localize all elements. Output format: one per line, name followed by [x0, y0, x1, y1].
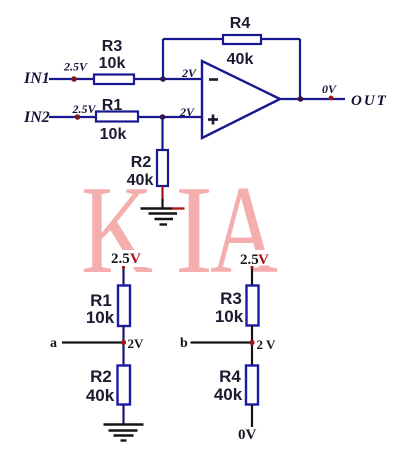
svg-text:0V: 0V: [238, 427, 257, 443]
junction dot plus node: [160, 114, 166, 120]
resistor R3 divider body: [247, 286, 259, 326]
op-amp minus sign: [209, 78, 218, 81]
svg-text:2V: 2V: [179, 105, 195, 119]
svg-text:R3: R3: [220, 289, 242, 308]
wire node a horizontal: [62, 341, 124, 343]
junction dot node a: [121, 340, 126, 345]
svg-text:2V: 2V: [181, 66, 197, 80]
wire R4 to 0V: [251, 405, 253, 428]
svg-text:10k: 10k: [99, 55, 126, 72]
svg-text:2.5V: 2.5V: [72, 102, 97, 116]
resistor R1 body: [96, 112, 138, 122]
wire R2 to ground bottom: [122, 405, 124, 425]
junction dot feedback node: [160, 76, 166, 82]
svg-text:V: V: [258, 252, 269, 268]
wire R1 to node a: [122, 326, 124, 366]
resistor R1 divider body: [118, 286, 130, 327]
wire R2 to ground black: [161, 199, 163, 208]
wire IN1 to R3: [49, 78, 94, 80]
junction dot IN1: [71, 76, 77, 82]
svg-text:40k: 40k: [86, 386, 115, 405]
wire plus node down to R2: [161, 117, 163, 150]
resistor R4 divider body: [246, 366, 258, 405]
svg-text:40k: 40k: [227, 51, 254, 68]
junction dot IN2: [75, 114, 81, 120]
resistor R2 body: [157, 150, 168, 186]
svg-text:R3: R3: [102, 38, 123, 55]
white label box right 2.5V: [234, 250, 271, 266]
watermark KIA: [81, 161, 278, 300]
svg-text:0V: 0V: [322, 82, 337, 96]
resistor R3 body: [94, 75, 134, 85]
wire 2.5V stub left: [122, 266, 124, 286]
wire feedback top left: [163, 38, 223, 40]
wire 2.5V stub right: [251, 266, 253, 286]
op-amp plus sign: [208, 115, 218, 125]
wire R1 to op-amp: [138, 116, 202, 118]
svg-text:2.5V: 2.5V: [63, 60, 88, 74]
svg-text:IN2: IN2: [23, 109, 50, 126]
svg-text:10k: 10k: [215, 307, 244, 326]
wire feedback vertical up: [162, 39, 164, 79]
svg-text:2.5: 2.5: [240, 252, 259, 268]
wire output: [280, 98, 345, 100]
wire node b horizontal: [191, 341, 253, 343]
svg-text:V: V: [130, 251, 141, 267]
wire R3 to op-amp: [134, 78, 202, 80]
svg-text:2.5: 2.5: [111, 251, 130, 267]
dot 0V probe: [329, 96, 334, 101]
junction dot node b: [249, 340, 254, 345]
resistor R4 body: [223, 35, 261, 44]
svg-text:a: a: [50, 336, 57, 351]
svg-text:40k: 40k: [214, 385, 243, 404]
label 2.5V right divider: [240, 252, 269, 268]
wire R2 to ground red: [161, 186, 163, 201]
label 2.5V left divider: [111, 251, 141, 267]
svg-text:10k: 10k: [100, 126, 127, 143]
resistor R2 divider body: [118, 366, 131, 405]
ground top symbol: [141, 209, 178, 225]
svg-text:R4: R4: [230, 15, 251, 32]
wire feedback vertical down: [299, 39, 301, 99]
dot stub right: [250, 266, 253, 269]
svg-text:R1: R1: [102, 97, 123, 114]
svg-text:IN1: IN1: [23, 70, 50, 87]
svg-text:b: b: [180, 336, 188, 351]
op-amp U1 triangle: [202, 61, 280, 138]
junction dot output node: [298, 96, 304, 102]
dot stub left: [122, 266, 125, 269]
svg-text:A: A: [210, 161, 278, 300]
svg-text:R2: R2: [90, 367, 112, 386]
svg-text:I: I: [175, 161, 213, 300]
svg-text:40k: 40k: [127, 172, 154, 189]
ground bottom symbol: [104, 425, 144, 441]
wire feedback top right: [261, 38, 300, 40]
ground top red segment: [172, 207, 185, 209]
svg-text:R2: R2: [131, 154, 152, 171]
wire R3 to node b: [251, 326, 253, 366]
svg-text:10k: 10k: [86, 308, 115, 327]
wire IN2 to R1: [49, 116, 96, 118]
svg-text:2V: 2V: [128, 336, 145, 351]
white label box left 2.5V: [110, 250, 147, 267]
svg-text:OUT: OUT: [351, 93, 388, 109]
svg-text:2 V: 2 V: [257, 337, 277, 352]
svg-text:R4: R4: [219, 367, 241, 386]
